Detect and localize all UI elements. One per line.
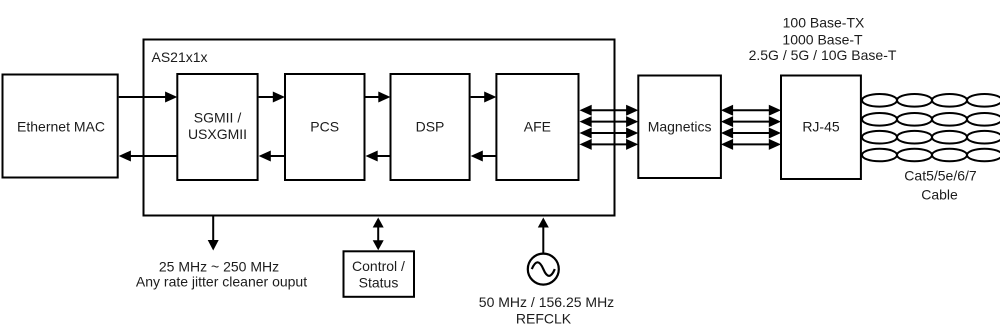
svg-text:AS21x1x: AS21x1x	[152, 49, 208, 65]
wire bundle Magnetics to RJ-45 pair 4	[721, 139, 781, 150]
wire bundle AFE to Magnetics pair 2	[580, 116, 639, 127]
svg-text:REFCLK: REFCLK	[516, 311, 572, 327]
svg-text:25 MHz ~ 250 MHz: 25 MHz ~ 250 MHz	[159, 259, 279, 275]
svg-text:2.5G / 5G / 10G Base-T: 2.5G / 5G / 10G Base-T	[749, 47, 897, 63]
wire SGMII to MAC (rx)	[119, 151, 178, 162]
wire PCS to DSP (tx)	[366, 92, 391, 103]
block AFE	[496, 74, 578, 180]
jitter cleaner output arrow	[208, 216, 219, 251]
block RJ-45	[781, 76, 861, 180]
twisted pair cable row 1	[862, 94, 1000, 107]
block SGMII / USXGMII	[177, 74, 257, 180]
wire PCS to SGMII (rx)	[259, 151, 285, 162]
svg-text:AFE: AFE	[524, 119, 551, 135]
svg-text:Control /: Control /	[352, 258, 405, 274]
svg-text:SGMII /: SGMII /	[194, 110, 242, 126]
wire bundle Magnetics to RJ-45 pair 2	[721, 116, 781, 127]
svg-text:100 Base-TX: 100 Base-TX	[783, 15, 865, 31]
wire bundle AFE to Magnetics pair 3	[580, 128, 639, 139]
refclk oscillator symbol	[528, 254, 559, 285]
block Control / Status	[344, 251, 415, 296]
svg-text:Any rate jitter cleaner ouput: Any rate jitter cleaner ouput	[136, 274, 307, 290]
label Base-T modes	[749, 15, 897, 64]
svg-text:PCS: PCS	[310, 119, 339, 135]
block PCS	[285, 74, 365, 180]
wire SGMII to PCS (tx)	[259, 92, 285, 103]
block DSP	[391, 74, 470, 180]
wire bundle Magnetics to RJ-45 pair 1	[721, 105, 781, 116]
label cable type	[904, 168, 977, 203]
svg-text:DSP: DSP	[416, 119, 445, 135]
wire bundle Magnetics to RJ-45 pair 3	[721, 128, 781, 139]
block AS21x1x outer boundary	[144, 40, 615, 216]
wire DSP to AFE (tx)	[471, 92, 497, 103]
block Magnetics	[638, 76, 721, 179]
wire bundle AFE to Magnetics pair 4	[580, 139, 639, 150]
svg-text:Magnetics: Magnetics	[648, 119, 712, 135]
twisted pair cable row 2	[862, 113, 1000, 126]
wire DSP to PCS (rx)	[366, 151, 391, 162]
label jitter cleaner output	[136, 259, 307, 290]
svg-text:Ethernet MAC: Ethernet MAC	[17, 119, 105, 135]
block Ethernet MAC	[3, 75, 118, 178]
twisted pair cable row 4	[862, 149, 1000, 162]
label refclk	[479, 294, 614, 327]
refclk arrow into AS21x1x	[538, 218, 549, 254]
wire MAC to SGMII (tx)	[119, 92, 178, 103]
control status bidirectional arrow	[373, 218, 384, 251]
svg-text:1000 Base-T: 1000 Base-T	[782, 32, 863, 48]
svg-text:RJ-45: RJ-45	[802, 119, 840, 135]
svg-text:Cat5/5e/6/7: Cat5/5e/6/7	[904, 168, 977, 184]
svg-text:Status: Status	[359, 275, 399, 291]
svg-text:50 MHz / 156.25 MHz: 50 MHz / 156.25 MHz	[479, 294, 614, 310]
svg-text:Cable: Cable	[921, 187, 958, 203]
svg-text:USXGMII: USXGMII	[188, 126, 247, 142]
wire bundle AFE to Magnetics pair 1	[580, 105, 639, 116]
twisted pair cable row 3	[862, 131, 1000, 144]
wire AFE to DSP (rx)	[471, 151, 497, 162]
